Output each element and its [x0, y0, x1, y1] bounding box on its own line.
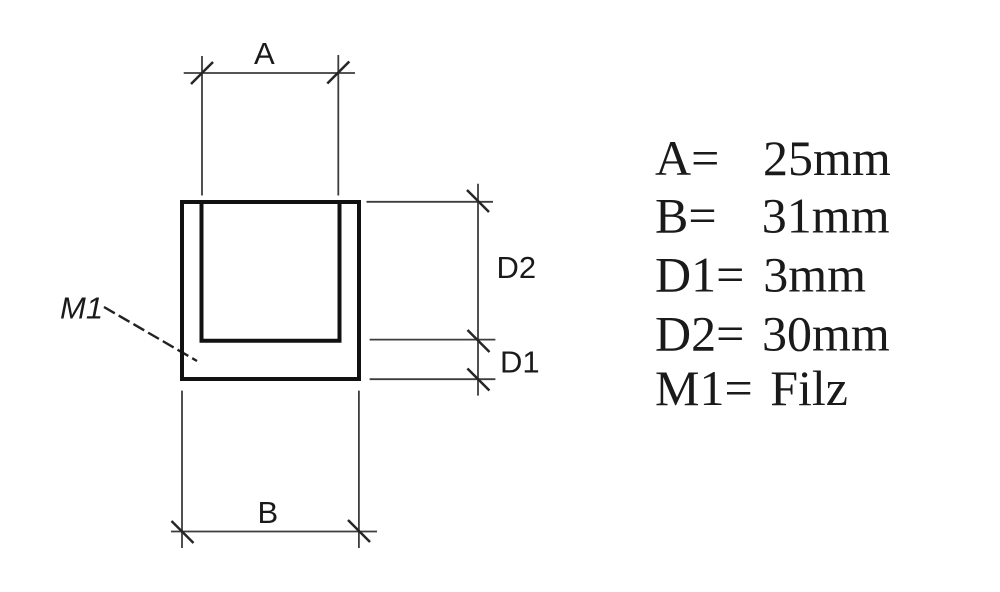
svg-text:D1=: D1=: [655, 246, 744, 302]
svg-text:D1: D1: [500, 345, 540, 380]
svg-text:A=: A=: [655, 130, 719, 186]
svg-text:M1: M1: [60, 291, 103, 326]
svg-text:30mm: 30mm: [762, 306, 890, 362]
svg-text:B=: B=: [655, 188, 717, 244]
svg-text:D2: D2: [497, 250, 537, 285]
svg-text:B: B: [258, 495, 279, 530]
svg-text:M1=: M1=: [655, 360, 753, 416]
svg-text:D2=: D2=: [655, 306, 744, 362]
svg-text:Filz: Filz: [770, 360, 848, 416]
svg-text:31mm: 31mm: [762, 188, 890, 244]
svg-text:3mm: 3mm: [763, 246, 866, 302]
svg-text:A: A: [254, 36, 275, 71]
svg-text:25mm: 25mm: [763, 130, 891, 186]
